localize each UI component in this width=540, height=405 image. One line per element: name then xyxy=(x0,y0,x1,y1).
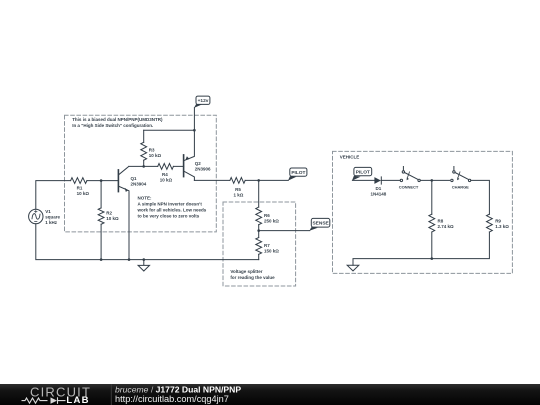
node R2 bottom xyxy=(100,258,103,261)
svg-text:to be very close to zero volts: to be very close to zero volts xyxy=(138,213,200,218)
bottom rail xyxy=(36,224,259,260)
wire CONNECT to CHARGE xyxy=(420,179,449,181)
svg-text:Q2: Q2 xyxy=(195,161,202,166)
svg-text:http://circuitlab.com/cqg4jn7: http://circuitlab.com/cqg4jn7 xyxy=(115,394,229,404)
svg-text:1 kHz: 1 kHz xyxy=(45,220,58,225)
voltage source V1 xyxy=(29,209,43,223)
resistor R8 leads xyxy=(431,180,433,258)
svg-text:work for all vehicles. Low nee: work for all vehicles. Low needs xyxy=(137,208,207,213)
resistor R2 xyxy=(98,208,104,224)
node R8 bottom xyxy=(431,257,434,260)
wire Q1 collector to node xyxy=(129,165,144,167)
resistor R5 xyxy=(230,178,245,184)
diode D1 xyxy=(374,177,381,184)
svg-text:2N3904: 2N3904 xyxy=(131,182,147,187)
transistor Q1 xyxy=(117,170,119,192)
node Q1 emitter bottom xyxy=(128,258,131,261)
wire R6 to R7 xyxy=(258,225,260,238)
wire R5 to PILOT xyxy=(245,179,288,181)
svg-text:1.3 kΩ: 1.3 kΩ xyxy=(495,224,509,229)
resistor R4 xyxy=(144,165,184,167)
wire top rail R3 to +12v xyxy=(144,129,195,131)
svg-text:2N3906: 2N3906 xyxy=(195,167,211,172)
svg-text:LAB: LAB xyxy=(66,395,89,405)
svg-text:1N4148: 1N4148 xyxy=(371,192,387,197)
svg-text:+12v: +12v xyxy=(198,98,209,104)
svg-text:NOTE:: NOTE: xyxy=(138,196,153,201)
resistor R9 xyxy=(487,214,493,232)
dashed annotation box "biased dual" xyxy=(65,115,217,232)
svg-text:CONNECT: CONNECT xyxy=(399,184,419,189)
svg-text:10 kΩ: 10 kΩ xyxy=(149,153,162,158)
svg-text:10 kΩ: 10 kΩ xyxy=(106,216,119,221)
node R1/R2 junction xyxy=(100,179,103,182)
wire Q2 collector to R5 xyxy=(194,179,230,181)
svg-text:VEHICLE: VEHICLE xyxy=(340,155,360,160)
svg-text:R7: R7 xyxy=(264,243,270,248)
svg-text:150 kΩ: 150 kΩ xyxy=(264,249,279,254)
resistor R7 xyxy=(256,238,262,255)
flag PILOT (main) xyxy=(288,168,307,181)
svg-text:for reading the value: for reading the value xyxy=(230,275,275,280)
resistor R1 xyxy=(71,178,87,184)
wire R7 bottom xyxy=(258,254,260,259)
svg-text:SENSE: SENSE xyxy=(312,221,329,227)
svg-text:R8: R8 xyxy=(438,218,444,223)
node ground tap xyxy=(143,258,146,261)
wire +12v flag stem xyxy=(193,108,195,131)
switch CONNECT xyxy=(400,179,402,181)
wire down to R6 xyxy=(258,180,260,207)
svg-text:square: square xyxy=(45,214,60,219)
dashed annotation box "voltage splitter" xyxy=(223,202,296,286)
flag SENSE xyxy=(309,218,329,230)
node R8 top xyxy=(431,179,434,182)
svg-text:bruceme / J1772 Dual NPN/PNP: bruceme / J1772 Dual NPN/PNP xyxy=(115,384,241,394)
wire R1 to Q1 base xyxy=(87,180,119,182)
svg-text:PILOT: PILOT xyxy=(291,170,305,176)
svg-text:250 kΩ: 250 kΩ xyxy=(264,219,279,224)
wire R2 bottom lead xyxy=(100,224,102,259)
node collector/R3/R4 xyxy=(142,165,145,168)
node R5/PILOT/R6 xyxy=(257,179,260,182)
svg-text:PILOT: PILOT xyxy=(356,169,370,175)
svg-text:R4: R4 xyxy=(162,172,168,177)
svg-text:In a "High Side Switch" config: In a "High Side Switch" configuration. xyxy=(72,123,153,128)
node R6/R7/SENSE xyxy=(257,229,260,232)
wire CHARGE to R9 xyxy=(471,180,490,214)
flag PILOT (vehicle) xyxy=(352,167,372,180)
node +12v rail xyxy=(193,129,196,132)
wire to SENSE flag xyxy=(259,230,310,232)
transistor Q2 xyxy=(183,155,185,177)
svg-text:R6: R6 xyxy=(264,213,270,218)
wire V1 top to R1 xyxy=(36,181,71,210)
wire PILOT to D1 xyxy=(352,179,374,181)
svg-text:Voltage splitter: Voltage splitter xyxy=(230,269,262,274)
resistor R6 xyxy=(256,207,262,225)
wire R9 bottom / vehicle bottom rail xyxy=(353,232,489,265)
svg-text:Q1: Q1 xyxy=(131,176,138,181)
ground xyxy=(138,260,149,271)
svg-text:R1: R1 xyxy=(77,185,83,190)
wire R2 top lead xyxy=(100,181,102,208)
svg-text:R5: R5 xyxy=(235,187,241,192)
svg-text:10 kΩ: 10 kΩ xyxy=(77,191,90,196)
svg-text:V1: V1 xyxy=(45,209,51,214)
svg-text:2.74 kΩ: 2.74 kΩ xyxy=(438,224,455,229)
ground vehicle xyxy=(347,265,359,271)
dashed box VEHICLE xyxy=(333,151,513,273)
flag +12v xyxy=(194,96,210,108)
svg-text:D1: D1 xyxy=(376,186,382,191)
svg-text:1 kΩ: 1 kΩ xyxy=(234,192,244,197)
resistor R8 xyxy=(429,214,435,232)
switch CHARGE xyxy=(451,179,453,181)
svg-text:R2: R2 xyxy=(106,210,112,215)
svg-text:10 kΩ: 10 kΩ xyxy=(160,177,173,182)
svg-text:This is a biased dual NPN/PNP(: This is a biased dual NPN/PNP(UMD3NTR) xyxy=(72,117,163,122)
svg-text:R3: R3 xyxy=(149,148,155,153)
svg-text:R9: R9 xyxy=(495,218,501,223)
resistor R3 xyxy=(143,130,145,166)
svg-text:A simple NPN inverter doesn’t: A simple NPN inverter doesn’t xyxy=(138,202,203,207)
svg-text:CHARGE: CHARGE xyxy=(452,184,469,189)
